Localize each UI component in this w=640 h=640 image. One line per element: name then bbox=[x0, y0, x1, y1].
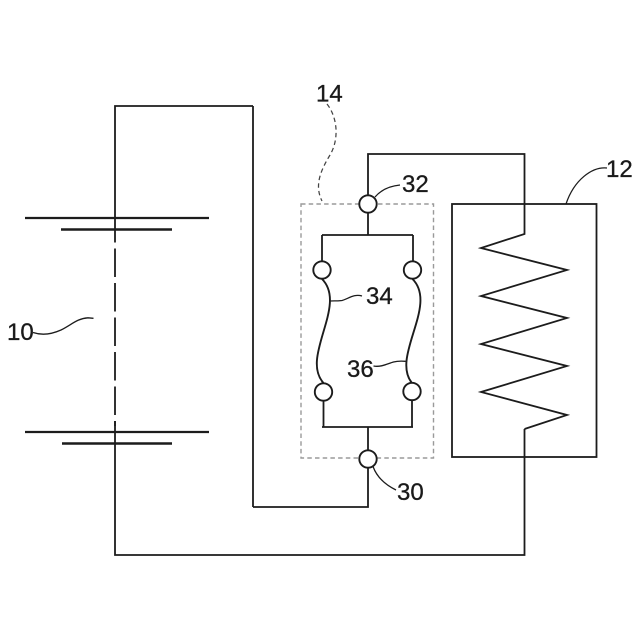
svg-text:12: 12 bbox=[606, 156, 633, 183]
wire switch top to resistor top bbox=[368, 154, 525, 233]
switch unit top center stub to terminal 32 bbox=[367, 213, 369, 235]
resistor 12 zigzag element bbox=[481, 233, 567, 429]
battery 10 cell 2 long plate bbox=[25, 431, 209, 433]
leader line for label 36 bbox=[374, 361, 406, 366]
leader line for label 12 bbox=[566, 168, 607, 204]
svg-text:10: 10 bbox=[7, 319, 34, 346]
terminal node 32 bbox=[359, 195, 376, 212]
switch unit bottom-right stub bbox=[411, 401, 413, 428]
battery 10 internal dashed link bbox=[114, 218, 116, 443]
switch unit bottom rail bbox=[322, 426, 413, 428]
leader line for label 32 bbox=[375, 185, 400, 197]
terminal node 30 bbox=[359, 450, 376, 467]
battery 10 cell 1 short plate bbox=[61, 228, 172, 231]
svg-text:30: 30 bbox=[397, 479, 424, 506]
wire horizontal y=507 to below contact node 30 bbox=[253, 467, 368, 507]
resistor 12 outer box bbox=[452, 204, 597, 457]
dashed enclosure box 14 bbox=[301, 204, 434, 458]
movable contact strip 36 (right S-curve) bbox=[406, 279, 420, 383]
switch unit bottom-left stub bbox=[323, 401, 325, 427]
battery 10 cell 1 long plate bbox=[25, 217, 209, 219]
switch unit top-right stub bbox=[412, 235, 414, 261]
svg-text:36: 36 bbox=[347, 356, 374, 383]
contact circle top-right bbox=[404, 261, 421, 278]
contact circle top-left bbox=[313, 261, 330, 278]
switch unit top rail bbox=[322, 234, 413, 236]
svg-text:34: 34 bbox=[366, 283, 393, 310]
movable contact strip 34 (left S-curve) bbox=[317, 279, 330, 383]
leader line for label 14 (dashed) bbox=[318, 104, 336, 201]
battery 10 cell 2 short plate bbox=[62, 442, 172, 445]
svg-text:32: 32 bbox=[402, 171, 429, 198]
wire battery bottom to resistor bottom bbox=[115, 429, 525, 555]
leader line for label 30 bbox=[373, 467, 396, 491]
leader line for label 34 bbox=[331, 295, 363, 301]
leader line for label 10 bbox=[33, 318, 94, 334]
wire left tall vertical down to y=507 bbox=[252, 106, 254, 507]
switch unit bottom center stub to terminal 30 bbox=[367, 427, 369, 450]
svg-text:14: 14 bbox=[316, 81, 343, 108]
contact circle bottom-left bbox=[315, 383, 332, 400]
contact circle bottom-right bbox=[403, 383, 420, 400]
switch unit top-left stub bbox=[321, 235, 323, 261]
wire battery top to node 253,106 bbox=[115, 106, 253, 218]
